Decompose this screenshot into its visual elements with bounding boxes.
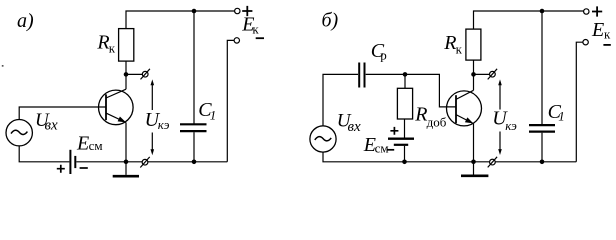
wire source to C_р — [323, 74, 358, 126]
arrow U_кэ up — [151, 85, 153, 110]
minus sign E_к — [256, 37, 264, 39]
ground — [125, 162, 127, 175]
node base/R_доб — [403, 72, 408, 77]
wire source to battery — [19, 146, 69, 162]
battery E_см (short - plate) — [74, 156, 76, 168]
svg-text:E: E — [591, 19, 604, 41]
svg-text:а): а) — [17, 10, 34, 32]
bottom rail b — [323, 152, 576, 162]
node C1 bottom — [192, 160, 197, 165]
svg-text:к: к — [456, 41, 463, 56]
battery E_см b (long + plate) — [388, 137, 414, 139]
svg-text:к: к — [252, 22, 259, 37]
wire collector probe — [126, 73, 142, 75]
node rail/C1 — [192, 9, 197, 14]
battery plus sign b — [390, 127, 398, 135]
terminal - (E_к) b — [583, 40, 588, 45]
svg-text:доб: доб — [427, 115, 447, 130]
node rail/C1 b — [540, 9, 545, 14]
battery E_см (long + plate) — [69, 150, 71, 174]
minus sign E_к b — [603, 44, 610, 46]
transistor VT1 — [99, 90, 134, 125]
terminal + (E_к) b — [584, 9, 589, 14]
svg-text:E: E — [76, 132, 89, 154]
node C1 bottom b — [540, 160, 545, 165]
scan speck — [2, 65, 4, 67]
wire resistor top / top rail — [126, 11, 235, 29]
battery minus sign b — [387, 149, 394, 151]
wire minus terminal down b — [576, 42, 583, 162]
svg-text:к: к — [109, 41, 116, 56]
node collector — [124, 72, 129, 77]
svg-text:R: R — [414, 103, 427, 125]
wire emitter — [125, 123, 127, 162]
svg-text:р: р — [380, 48, 387, 63]
svg-text:см: см — [375, 140, 389, 155]
svg-text:R: R — [443, 32, 456, 54]
svg-text:б): б) — [322, 10, 339, 32]
probe terminal emitter — [142, 159, 148, 165]
terminal - (E_к) — [234, 38, 239, 43]
battery plus sign — [57, 165, 65, 173]
svg-text:к: к — [604, 27, 611, 42]
battery minus sign — [80, 167, 88, 169]
svg-text:вх: вх — [348, 119, 362, 135]
resistor R_к b — [466, 29, 481, 60]
plus sign E_к — [242, 6, 252, 16]
capacitor C_р — [359, 63, 364, 88]
wire source to base — [19, 107, 106, 120]
arrow U_кэ down — [151, 133, 153, 150]
svg-text:см: см — [89, 138, 103, 153]
wire R_доб top — [404, 74, 406, 88]
wire collector b — [473, 60, 475, 90]
plus sign E_к b — [592, 6, 602, 16]
terminal + (E_к) — [235, 8, 240, 13]
wire C1 top branch — [193, 11, 195, 124]
svg-text:1: 1 — [558, 108, 565, 123]
wire minus terminal down — [227, 40, 234, 161]
wire battery to emitter node and probe — [76, 161, 227, 163]
node collector b — [471, 72, 476, 77]
node battery/rail — [402, 160, 407, 165]
wire resistor top / top rail b — [474, 11, 584, 29]
capacitor C1 — [180, 124, 207, 131]
wire C_р to base corner — [366, 74, 456, 107]
wire R_доб to battery — [404, 119, 406, 138]
voltage source G1 (U_вх) — [6, 120, 32, 146]
voltage source G2 (U_вх) — [310, 126, 336, 152]
resistor R_к — [119, 29, 134, 62]
wire C1 bottom — [193, 132, 195, 162]
wire emitter b — [473, 124, 475, 162]
wire C1 top branch b — [541, 11, 543, 124]
wire C1 bottom b — [541, 133, 543, 162]
arrow U_кэ up b — [499, 85, 501, 110]
svg-text:вх: вх — [45, 118, 59, 134]
svg-text:R: R — [96, 32, 109, 54]
node emitter — [124, 160, 129, 165]
node emitter b — [471, 160, 476, 165]
probe terminal emitter b — [490, 159, 496, 165]
svg-text:кэ: кэ — [158, 117, 170, 132]
battery E_см b (short - plate) — [394, 144, 408, 146]
svg-text:кэ: кэ — [505, 118, 517, 133]
wire battery to rail — [404, 146, 406, 162]
resistor R_доб — [397, 88, 412, 119]
svg-text:1: 1 — [210, 108, 217, 123]
ground b — [473, 162, 475, 175]
wire collector — [125, 61, 127, 89]
capacitor C1 b — [529, 125, 555, 132]
wire collector probe b — [474, 73, 490, 75]
transistor VT2 — [447, 91, 482, 126]
probe terminal collector — [142, 71, 148, 77]
arrow U_кэ down b — [499, 132, 501, 150]
probe terminal collector b — [490, 71, 496, 77]
